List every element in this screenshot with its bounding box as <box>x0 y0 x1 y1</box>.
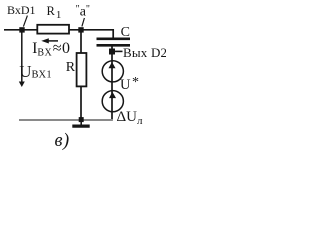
label BxD1 <box>7 3 36 18</box>
input voltage arrow Uvx1 <box>21 32 23 83</box>
label R <box>66 60 75 76</box>
label node a <box>76 4 90 21</box>
capacitor C top plate <box>97 37 131 40</box>
pointer tick from node a label <box>82 18 85 26</box>
label Vyh D2 <box>123 45 167 61</box>
bottom rail <box>19 119 113 121</box>
figure label v <box>55 131 70 152</box>
label Ivx ~ 0 <box>32 40 70 59</box>
node a junction <box>78 27 83 32</box>
wire node a down to resistor R <box>80 30 82 53</box>
label C <box>121 25 130 41</box>
input current arrow Ivx <box>48 40 58 42</box>
wire R1 to node a to capacitor <box>70 30 114 38</box>
source U* circle <box>102 61 123 82</box>
wire resistor R down to bottom rail <box>80 87 82 120</box>
junction dot on rail <box>79 117 84 122</box>
pointer line from BxD1 label <box>23 16 27 27</box>
node BxD1 <box>19 27 24 32</box>
arrow head in dUl <box>109 92 116 98</box>
label dUl <box>117 109 143 127</box>
resistor R vertical <box>77 53 87 86</box>
source dUl circle <box>102 91 123 112</box>
label R1 <box>47 4 62 21</box>
capacitor C bottom plate <box>97 44 131 47</box>
wire top-left segment <box>4 29 37 31</box>
ground stub <box>80 121 82 125</box>
label U* <box>120 77 130 94</box>
arrow head in U* <box>109 62 116 68</box>
label Uvx1 <box>19 62 52 82</box>
ground bar <box>72 124 89 127</box>
node VyhD2 <box>109 49 115 55</box>
wire capacitor to sources to bottom rail <box>111 46 113 119</box>
leader dash to VyhD2 label <box>115 50 123 52</box>
resistor R1 <box>37 25 69 34</box>
